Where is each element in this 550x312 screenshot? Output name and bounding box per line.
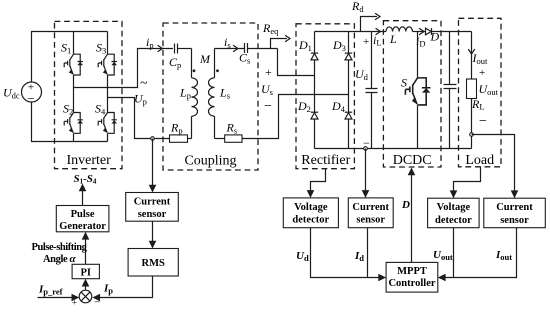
svg-text:Coupling: Coupling [184,154,236,169]
svg-text:Voltage: Voltage [294,202,328,213]
svg-text:Current: Current [496,202,533,213]
svg-text:sensor: sensor [138,209,167,220]
svg-text:+: + [363,36,369,48]
svg-text:Pulse: Pulse [71,209,95,220]
svg-text:Rectifier: Rectifier [301,153,350,168]
svg-text:+: + [72,298,77,308]
svg-text:PI: PI [80,268,91,279]
svg-text:−: − [264,99,272,114]
svg-text:M: M [199,52,211,66]
svg-text:RMS: RMS [142,258,165,269]
svg-text:Voltage: Voltage [437,202,471,213]
svg-text:~: ~ [140,76,148,91]
svg-text:+: + [479,67,485,79]
svg-text:MPPT: MPPT [397,266,427,277]
svg-text:detector: detector [292,215,329,226]
svg-text:Current: Current [352,202,389,213]
svg-text:−: − [479,114,487,129]
svg-text:+: + [265,65,272,79]
svg-text:Generator: Generator [59,221,106,232]
svg-text:Load: Load [465,153,494,168]
svg-text:Angle α: Angle α [43,253,76,265]
svg-text:Current: Current [134,196,171,207]
svg-text:sensor: sensor [500,215,529,226]
svg-text:Pulse-shifting: Pulse-shifting [32,242,88,253]
svg-text:D: D [401,199,410,211]
svg-text:detector: detector [435,215,472,226]
svg-text:sensor: sensor [356,215,385,226]
svg-text:L: L [389,32,397,46]
svg-text:DCDC: DCDC [393,153,432,168]
svg-text:S: S [401,76,407,90]
svg-text:Inverter: Inverter [66,153,111,168]
svg-text:Controller: Controller [388,278,435,289]
